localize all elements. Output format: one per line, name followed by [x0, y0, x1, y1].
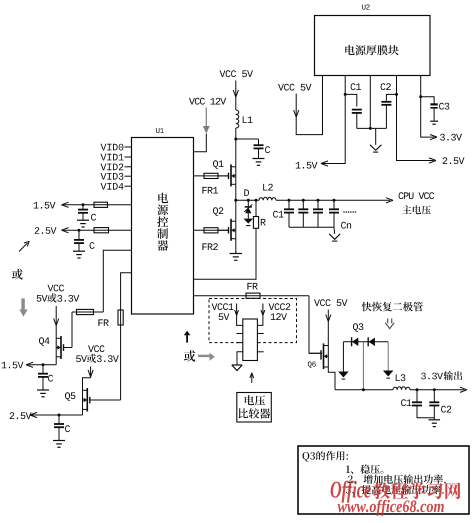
label C (Q5 output) — [65, 425, 70, 432]
label L1 — [243, 116, 253, 123]
node row B cap — [78, 229, 81, 232]
transistor Q2 — [218, 219, 236, 241]
label C row B — [90, 242, 95, 249]
ground (U2) — [370, 145, 382, 152]
label Q5 — [65, 392, 75, 401]
text U1 char 4 — [157, 228, 168, 239]
capacitor C (Q4 output) — [38, 365, 48, 390]
label VID1 — [101, 154, 124, 161]
label 3.3V (U2 out) — [440, 134, 462, 141]
wire diode right leg — [387, 342, 389, 371]
IC U2 thick-film power module box — [315, 16, 431, 76]
text 或 (comparator) — [184, 350, 195, 361]
label C row A — [91, 214, 96, 221]
arrow up (comparator select) — [250, 373, 254, 383]
label VID0 — [101, 144, 124, 151]
label L3 — [396, 374, 406, 381]
label C1 (U2) — [351, 83, 361, 90]
arrow VCC2 into comparator — [257, 304, 264, 326]
label CPU VCC — [399, 192, 435, 199]
arrow diagonal (alternative) — [19, 241, 29, 251]
label Q1 — [213, 160, 224, 169]
wire 3.3V output rail — [335, 387, 467, 392]
label C3 (U2) — [439, 103, 449, 110]
diode Q3b — [368, 337, 375, 346]
label U2 — [362, 5, 370, 10]
label VCC 5V (U2 feed) — [278, 84, 312, 91]
wire Q4 gate riser — [71, 312, 73, 348]
label VCC (Q4 feed) — [48, 285, 65, 292]
wire 2.5V output rail — [30, 412, 83, 417]
label 1.5V (Q4 output) — [2, 362, 24, 369]
node R branch — [255, 199, 258, 202]
resistor FR2 — [204, 228, 218, 233]
capacitor bank cap 1 — [284, 200, 294, 227]
wire cap bank ground stem — [333, 227, 336, 234]
node U2 C3 branch — [419, 95, 422, 98]
wire Q1 source to D node — [235, 184, 237, 200]
text 1、稳压。 — [346, 465, 383, 474]
ground (diode left) — [338, 372, 349, 380]
node U2 C1 branch — [344, 93, 347, 96]
capacitor C2 (output) — [429, 390, 439, 418]
label C (Q4 output) — [48, 375, 53, 382]
text U1 char 1 — [158, 193, 168, 203]
label 主电压 — [402, 205, 431, 214]
wire VCC 12V feed with arrow — [194, 108, 210, 152]
arrow VCC1 into comparator — [235, 304, 243, 326]
label VCC1 — [212, 303, 234, 310]
wire FR to U1 (via riser) — [72, 250, 132, 312]
wire node to C — [236, 138, 259, 140]
ground (row B cap) — [73, 249, 85, 258]
label C (at L1 node) — [265, 146, 270, 153]
wire VCC 5V feed with arrow — [233, 81, 238, 111]
wire Q4 source to 1.5V rail — [55, 357, 57, 365]
wire main output line — [276, 198, 393, 203]
wire Q5 source to 2.5V rail — [82, 409, 84, 415]
text 电源厚膜块 — [345, 45, 399, 55]
transistor Q4 — [56, 336, 72, 359]
wire row A with arrow — [62, 202, 132, 207]
label FR (comparator line) — [247, 283, 257, 290]
capacitor bank cap 4 — [329, 200, 339, 227]
label 5V or 3.3V (Q5 feed) — [76, 354, 119, 363]
arrow gray double-down (diode pointer) — [385, 319, 394, 329]
resistor FR (Q5 gate, vertical) — [118, 310, 123, 325]
wire U2 pin1 VCC feed — [294, 76, 323, 135]
capacitor C2 (U2) — [381, 94, 396, 128]
inductor L1 — [236, 110, 239, 128]
text 3、(hidden line) — [346, 485, 444, 494]
pin VID1 — [125, 156, 132, 158]
pin VID3 — [125, 175, 132, 177]
node C2 out — [433, 388, 436, 391]
dots ellipsis (more caps) — [343, 211, 356, 213]
transistor Q5 — [83, 388, 121, 412]
wire VCC arrow to Q5 drain — [83, 367, 94, 391]
arrow gray down (alternative) — [19, 298, 27, 316]
wire U1 to FR2 — [194, 229, 229, 231]
wire U1 to FR1 — [194, 175, 229, 177]
text U1 char 5 — [157, 240, 168, 251]
wire Q6 source to output rail — [328, 367, 335, 390]
arrow gray right (or-select) — [198, 353, 215, 361]
wire D node to L2 — [236, 199, 259, 201]
label U1 — [156, 128, 164, 133]
capacitor bank cap 2 — [298, 200, 308, 227]
node diode mid junction — [362, 388, 365, 391]
wire L1 to node — [235, 128, 237, 167]
node U2 C2 branch — [395, 93, 398, 96]
label C2 (output) — [441, 406, 451, 413]
wire diode mid to output — [362, 342, 364, 390]
label 2.5V (row B) — [35, 227, 57, 234]
wire VCC arrow to Q6 drain — [326, 310, 331, 346]
ground (Q2 source) — [230, 252, 243, 261]
capacitor C (Q5 output) — [54, 415, 64, 440]
label R — [261, 219, 266, 226]
ground (cap bank) — [329, 234, 340, 241]
label 快恢复二极管 — [362, 302, 423, 312]
label Cn — [341, 222, 351, 229]
pin comparator right 1 — [257, 333, 263, 335]
wire VCC arrow to Q4 drain — [54, 306, 59, 338]
label FR2 — [202, 243, 217, 250]
wire U2 ground rail — [357, 127, 387, 129]
text U1 char 3 — [157, 216, 168, 227]
wire Q5 gate riser to U1 — [121, 273, 132, 400]
capacitor C row B — [74, 230, 84, 251]
wire comparator gnd — [237, 352, 243, 365]
wire U2 pin5 3.3V out — [421, 76, 437, 140]
label C1 (cap bank) — [273, 211, 283, 218]
resistor FR (Q4 gate) — [77, 309, 94, 314]
wire U2 gnd stem — [375, 128, 377, 144]
node cap bank 3 — [317, 199, 320, 202]
pin comparator left 2 — [237, 342, 243, 344]
transistor Q1 — [218, 164, 236, 186]
node cap bank 4 — [333, 199, 336, 202]
watermark 教程学习网 — [373, 482, 461, 499]
resistor R — [253, 217, 258, 229]
capacitor bank cap 3 — [313, 200, 323, 227]
text 2、增加电压输出功率. — [348, 475, 446, 484]
label Q2 — [213, 207, 223, 216]
pin VID0 — [125, 146, 132, 148]
text 比较器 — [239, 408, 271, 418]
wire diode left leg — [342, 342, 344, 372]
label FR1 — [202, 187, 218, 194]
label VCC 5V (Q6 feed) — [314, 299, 348, 306]
watermark Office — [331, 481, 371, 503]
node row A cap — [82, 203, 85, 206]
ground (zener) — [244, 219, 253, 226]
text 或 (left) — [12, 269, 23, 280]
label 2.5V (U2 out) — [443, 157, 465, 164]
ground (comparator) — [232, 365, 242, 371]
label C2 (U2) — [381, 83, 391, 90]
label FR (Q4 gate) — [98, 319, 108, 326]
label 3.3V output — [421, 371, 462, 380]
transistor Q6 — [309, 343, 328, 369]
diode Q3a — [352, 337, 359, 346]
ground (Q4 cap) — [37, 388, 49, 397]
label VID2 — [101, 164, 124, 171]
ground (Q5 cap) — [53, 439, 65, 448]
ground (row A cap) — [77, 218, 89, 227]
label Q6 — [308, 362, 316, 368]
wire 1.5V output rail — [26, 362, 56, 367]
IC voltage comparator box — [243, 319, 258, 361]
label VCC 5V (top feed) — [220, 70, 254, 77]
label L2 — [263, 184, 273, 191]
ground (diode right) — [383, 371, 394, 379]
label D — [244, 189, 249, 196]
wire U1 to comparator line — [194, 295, 310, 297]
wire Q2 source down — [235, 239, 237, 254]
capacitor C1 (U2) — [345, 94, 362, 128]
label VCC 12V — [189, 98, 226, 105]
label 1.5V (row A) — [34, 202, 56, 209]
capacitor C (at L1 node) — [254, 139, 264, 158]
node C1 out — [416, 388, 419, 391]
label VCC2 — [269, 303, 291, 310]
label 5V or 3.3V (Q4 feed) — [37, 293, 80, 302]
text U1 char 2 — [157, 205, 168, 216]
label 12V (VCC2) — [271, 313, 287, 320]
wire comparator line to Q6 gate — [309, 296, 322, 354]
pin comparator right 2 — [257, 351, 263, 353]
ground (C3) — [430, 121, 438, 124]
resistor row B — [94, 228, 109, 233]
inductor L3 — [393, 387, 410, 390]
wire U2 pin4 2.5V out — [397, 76, 437, 164]
resistor FR1 — [204, 173, 218, 178]
wire D node to Q2 drain — [235, 200, 237, 221]
label 1.5V (U2 out) — [296, 162, 318, 169]
pin comparator left 1 — [237, 333, 243, 335]
note box Q3 purpose — [298, 446, 469, 514]
wire diode rail — [343, 341, 388, 343]
wire row B with arrow — [62, 228, 132, 233]
node Q4 cap — [42, 363, 45, 366]
label VCC (Q5 feed) — [88, 345, 105, 352]
ground (C at L1 node) — [253, 157, 265, 166]
watermark www.office68.com — [338, 500, 444, 516]
label 5V (VCC1) — [219, 313, 230, 320]
node D — [234, 199, 237, 202]
text 电压 — [245, 395, 265, 405]
dashed box (VCC select) — [209, 299, 297, 343]
node cap bank 1 — [288, 199, 291, 202]
node L1/C junction — [234, 138, 237, 141]
text Q3的作用: — [303, 451, 348, 462]
node zener branch — [247, 199, 250, 202]
ground (output caps) — [429, 418, 441, 427]
capacitor C3 (U2) — [421, 97, 438, 121]
wire R bottom to U1 pin — [194, 228, 257, 279]
label C1 (output) — [401, 399, 411, 406]
label VID3 — [101, 173, 124, 180]
label box 电压比较器 — [237, 393, 271, 423]
resistor row A — [94, 202, 108, 207]
wire U2 pin2 1.5V out — [321, 76, 345, 167]
label Q3 — [353, 323, 363, 332]
node Q5 cap — [58, 414, 61, 417]
node U2 gnd — [369, 127, 372, 130]
label 2.5V (Q5 output) — [10, 412, 32, 419]
wire cap bank common rail — [289, 226, 334, 228]
resistor FR (comparator line) — [246, 293, 260, 298]
inductor L2 — [259, 197, 276, 200]
label VID4 — [101, 183, 124, 190]
pin VID2 — [125, 166, 132, 168]
capacitor C row A — [78, 205, 88, 220]
wire U2 pin3 — [369, 76, 371, 129]
wire R top — [255, 200, 257, 216]
zener diode D (clamp) — [244, 200, 252, 218]
arrow up small (or-select left) — [184, 331, 191, 343]
pin VID4 — [125, 185, 132, 187]
label Q4 — [39, 337, 50, 346]
capacitor C1 (output) — [412, 390, 434, 418]
IC U1 power controller box — [132, 138, 194, 315]
node cap bank 2 — [302, 199, 305, 202]
